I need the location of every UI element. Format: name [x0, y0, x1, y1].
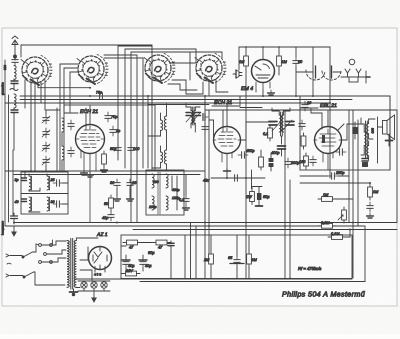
- power transformer T4: [67, 238, 98, 289]
- ECH21 stage box 2: [205, 96, 240, 106]
- capacitor C13c: [362, 159, 368, 167]
- wire long bus lower: [5, 223, 397, 230]
- antenna coil L1: [14, 66, 16, 80]
- mains switch contacts: [6, 240, 66, 285]
- capacitor C26: [269, 153, 273, 171]
- ground R3: [101, 167, 108, 172]
- wire G2 left leads: [57, 64, 78, 171]
- resistor R14 47: [123, 240, 141, 249]
- antenna: [12, 36, 18, 58]
- resistor R5: [263, 125, 272, 141]
- ground transformer: [70, 289, 78, 296]
- capacitor C7 under IFT1: [179, 175, 189, 211]
- tuning gang section G4: [195, 53, 226, 83]
- pickup connector arcs: [296, 66, 341, 80]
- wire box interior verticals: [121, 223, 249, 279]
- osc coil L4: [152, 172, 177, 214]
- resistor R13 0,1M: [328, 230, 350, 240]
- antenna tap bars: [11, 81, 18, 84]
- capacitor C9 300p: [285, 158, 300, 168]
- capacitor C4: [110, 126, 120, 136]
- capacitor C16: [127, 179, 138, 201]
- dial lamp LP2: [91, 282, 97, 288]
- wire bottom double line: [75, 226, 365, 282]
- capacitor C15: [110, 179, 120, 201]
- resistor R3: [102, 151, 107, 167]
- ground arrow left: [12, 226, 16, 236]
- wire mid-right verticals: [285, 103, 330, 279]
- tuning gang section G3: [144, 53, 175, 83]
- EM4 screen capacitor C2: [293, 57, 303, 67]
- ground EM4 cathode: [268, 90, 275, 95]
- capacitor C5: [110, 144, 121, 154]
- IF transformer T1: [186, 104, 208, 133]
- oscillator padder box: [21, 172, 68, 214]
- dial lamp LP3: [101, 282, 107, 288]
- resistor R17: [203, 251, 213, 267]
- wire EM4 top feed: [239, 47, 313, 96]
- wire main top bus: [5, 47, 390, 103]
- ECH21 stage box 1: [64, 105, 155, 171]
- cathode capacitor C12: [310, 156, 316, 166]
- rectifier tube V4 AZ1: [89, 247, 112, 273]
- resistor R8: [104, 195, 113, 211]
- ground left capacitor C14: [11, 213, 18, 224]
- capacitor C21 50µ: [148, 241, 174, 255]
- left rail wires: [5, 60, 13, 226]
- capacitor C10: [299, 120, 305, 130]
- padder caps left: [22, 178, 27, 202]
- mixer input coils: [62, 118, 74, 171]
- label 41p: [102, 211, 114, 221]
- grid blocking capacitor C13: [336, 149, 346, 155]
- wavy link: [10, 89, 18, 91]
- resistor R18: [247, 251, 258, 267]
- padder coil Lc: [15, 197, 32, 212]
- paper texture: [0, 0, 1, 1]
- padder coil Lb: [47, 174, 63, 190]
- wire AVC line: [38, 84, 91, 89]
- wire af line: [300, 182, 370, 184]
- wire EM4 lead to bus: [256, 90, 263, 96]
- capacitor C8 450p: [238, 149, 254, 158]
- padder coil La: [15, 174, 32, 191]
- resistor R4: [259, 150, 264, 170]
- ground heater: [92, 292, 96, 302]
- wire bundle between G2 and G3: [54, 45, 222, 223]
- wire G3-G4 link: [168, 49, 222, 94]
- capacitor C23 40µ: [139, 258, 152, 268]
- oscillator trimmer bank: [42, 110, 60, 171]
- grid capacitor C11: [302, 101, 312, 111]
- antenna coupling capacitor C1: [12, 56, 18, 66]
- resistor R16: [122, 269, 140, 276]
- EM4 target symbol: [233, 70, 242, 78]
- padder coil Ld: [47, 197, 63, 211]
- EBL21 stage box: [300, 96, 390, 170]
- EM4 anode resistor R1: [239, 53, 248, 69]
- wire row under tubes: [5, 171, 205, 175]
- capacitor C6: [128, 144, 140, 154]
- triode-hexode tube V1 ECH21: [76, 125, 105, 223]
- output transformer T3: [361, 118, 375, 160]
- wire G4 to EM4 top bus: [209, 79, 228, 96]
- cathode resistor R7: [299, 153, 308, 169]
- wire EBL stage top: [148, 96, 397, 279]
- wire V3 top leads: [311, 109, 328, 129]
- capacitor C17 40v: [203, 168, 265, 183]
- wire vertical x246: [246, 75, 252, 279]
- output pentode V3 EBL21: [314, 127, 342, 171]
- wire padder leads: [25, 171, 68, 212]
- triode-hexode tube V2 ECH21: [214, 127, 241, 171]
- capacitor C20: [367, 202, 374, 218]
- tone capacitor C19 250p: [300, 171, 349, 179]
- ground V1 cathode: [81, 170, 88, 175]
- tuning gang section G1: [21, 55, 52, 85]
- wire EBL anode: [338, 124, 361, 140]
- resistor R9 1W: [246, 187, 262, 205]
- label osc values: [149, 180, 180, 209]
- oscillator coil pair L3: [148, 104, 167, 171]
- antenna coil L2: [14, 94, 16, 108]
- wire mid verticals to IF: [148, 45, 152, 171]
- phono input sockets: [341, 59, 370, 83]
- IF transformer T2: [269, 108, 294, 156]
- resistor R10 1M: [318, 193, 353, 201]
- volume potentiometer P1: [338, 207, 346, 223]
- capacitor C18 50µ: [256, 187, 271, 207]
- wire G1 stator leads: [15, 45, 54, 171]
- wire antenna down-lead: [13, 79, 15, 150]
- oscillator coil box 2: [146, 170, 184, 215]
- wire right verticals: [349, 96, 397, 278]
- dial lamp LP1: [81, 282, 87, 288]
- wire V2 couplings: [209, 105, 274, 141]
- tuning gang section G2: [77, 54, 108, 84]
- ground speaker: [386, 134, 393, 146]
- magic eye tube EM4: [252, 60, 275, 91]
- EM4 anode resistor R2: [277, 53, 288, 69]
- grid capacitor C3: [105, 112, 118, 122]
- capacitor C24: [228, 256, 244, 266]
- resistor R15 47: [153, 240, 171, 249]
- loudspeaker: [378, 115, 395, 163]
- resistor R6: [301, 133, 306, 149]
- capacitor C22 40µ: [122, 258, 135, 268]
- wire lamps feed: [78, 281, 110, 291]
- wire V1 top leads: [86, 105, 90, 126]
- tone capacitor C13b: [353, 122, 357, 139]
- power section box: [121, 235, 352, 279]
- resistor R12 0,1M: [318, 221, 336, 228]
- resistor R11: [368, 183, 380, 200]
- coupling capacitor C25 70p: [96, 91, 106, 100]
- antenna tap bars 2: [11, 110, 18, 113]
- ground top right of box: [87, 172, 94, 177]
